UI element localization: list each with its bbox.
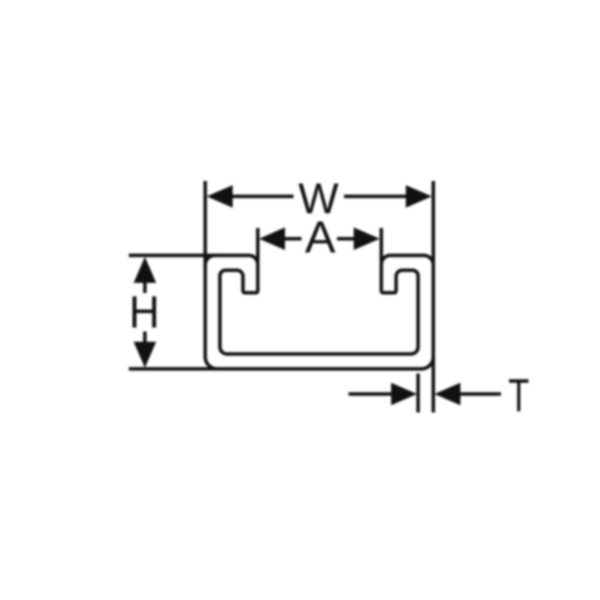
label T (509, 379, 528, 411)
T arrowhead left (points right) (391, 383, 417, 406)
W dimension shaft right (344, 195, 408, 199)
H dimension shaft bottom (143, 332, 147, 343)
W dimension extension line left (203, 181, 207, 267)
H dimension extension line bottom (129, 367, 218, 371)
T dimension extension line left (416, 374, 420, 413)
H dimension shaft top (143, 282, 147, 293)
A dimension shaft left (284, 237, 302, 241)
W dimension extension line right (432, 181, 436, 267)
label A (305, 222, 335, 253)
label H (132, 296, 156, 327)
H dimension extension line top (129, 254, 216, 258)
strut channel cross-section profile (205, 255, 433, 369)
label W (298, 183, 338, 213)
W dimension shaft left (231, 195, 294, 199)
T dimension extension line right (432, 356, 436, 413)
A arrowhead right (354, 227, 380, 250)
T dimension shaft right (460, 392, 501, 396)
A arrowhead left (259, 227, 285, 250)
T dimension shaft left (349, 392, 393, 396)
H arrowhead up (134, 257, 157, 283)
A dimension shaft right (337, 237, 355, 241)
A dimension extension line left (256, 228, 260, 262)
T arrowhead right (points left) (434, 383, 460, 406)
W arrowhead left (207, 185, 233, 208)
A dimension extension line right (380, 228, 384, 262)
W arrowhead right (406, 185, 432, 208)
H arrowhead down (134, 342, 157, 368)
